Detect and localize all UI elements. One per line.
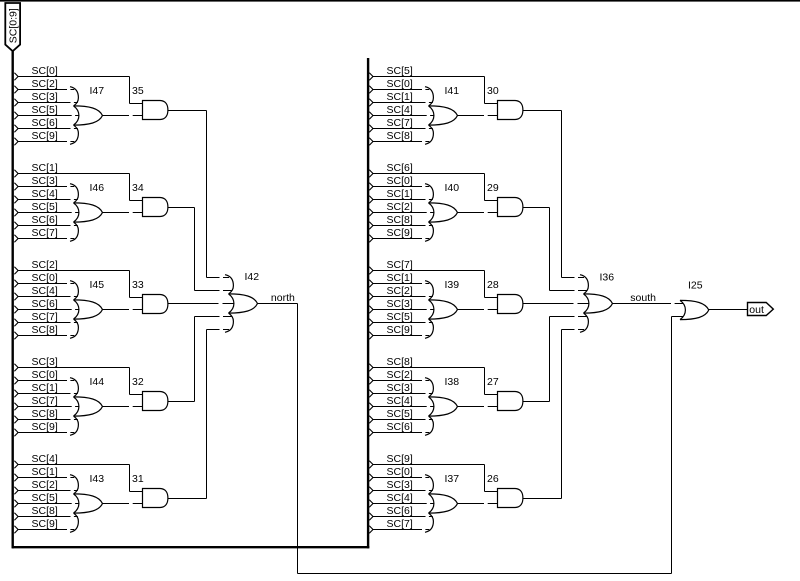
svg-text:28: 28 [487,279,499,291]
svg-text:SC[8]: SC[8] [387,356,413,368]
svg-text:SC[2]: SC[2] [387,369,413,381]
svg-text:SC[0]: SC[0] [387,175,413,187]
svg-text:I25: I25 [688,280,703,292]
svg-text:I46: I46 [90,182,105,194]
svg-text:SC[2]: SC[2] [32,479,58,491]
svg-text:south: south [630,292,656,304]
svg-text:SC[4]: SC[4] [387,104,413,116]
svg-text:SC[1]: SC[1] [32,162,58,174]
svg-text:SC[5]: SC[5] [387,408,413,420]
svg-text:SC[5]: SC[5] [387,65,413,77]
svg-text:SC[7]: SC[7] [387,518,413,530]
svg-text:SC[7]: SC[7] [32,227,58,239]
svg-text:30: 30 [487,85,499,97]
svg-text:SC[5]: SC[5] [387,311,413,323]
svg-text:SC[4]: SC[4] [32,188,58,200]
svg-text:26: 26 [487,473,499,485]
svg-text:SC[3]: SC[3] [387,298,413,310]
svg-text:SC[4]: SC[4] [32,453,58,465]
svg-text:SC[0]: SC[0] [387,78,413,90]
svg-text:SC[7]: SC[7] [387,117,413,129]
svg-text:SC[4]: SC[4] [387,492,413,504]
svg-text:I47: I47 [90,85,105,97]
svg-text:SC[1]: SC[1] [387,91,413,103]
svg-text:I39: I39 [445,279,460,291]
svg-text:32: 32 [132,376,144,388]
svg-text:SC[1]: SC[1] [32,466,58,478]
svg-text:SC[7]: SC[7] [32,311,58,323]
svg-text:I38: I38 [445,376,460,388]
svg-text:north: north [271,292,295,304]
svg-text:SC[3]: SC[3] [32,175,58,187]
svg-text:35: 35 [132,85,144,97]
svg-text:SC[0]: SC[0] [32,272,58,284]
svg-text:33: 33 [132,279,144,291]
svg-text:SC[9]: SC[9] [387,453,413,465]
svg-text:I45: I45 [90,279,105,291]
svg-text:SC[6]: SC[6] [387,421,413,433]
svg-text:SC[8]: SC[8] [32,408,58,420]
svg-text:34: 34 [132,182,144,194]
svg-text:SC[6]: SC[6] [32,298,58,310]
svg-text:SC[1]: SC[1] [387,272,413,284]
svg-text:SC[0]: SC[0] [32,369,58,381]
svg-text:SC[6]: SC[6] [32,117,58,129]
svg-text:SC[9]: SC[9] [387,324,413,336]
svg-text:SC[6]: SC[6] [387,162,413,174]
svg-text:SC[5]: SC[5] [32,104,58,116]
svg-text:SC[9]: SC[9] [387,227,413,239]
svg-text:SC[8]: SC[8] [32,505,58,517]
svg-text:SC[6]: SC[6] [387,505,413,517]
svg-text:SC[1]: SC[1] [387,188,413,200]
svg-text:SC[0]: SC[0] [387,466,413,478]
svg-text:SC[4]: SC[4] [387,395,413,407]
svg-text:SC[6]: SC[6] [32,214,58,226]
svg-text:I37: I37 [445,473,460,485]
svg-text:I36: I36 [600,272,615,284]
svg-text:SC[0]: SC[0] [32,65,58,77]
svg-text:SC[3]: SC[3] [387,382,413,394]
svg-text:SC[9]: SC[9] [32,130,58,142]
svg-text:SC[5]: SC[5] [32,492,58,504]
svg-text:SC[5]: SC[5] [32,201,58,213]
svg-text:SC[9]: SC[9] [32,518,58,530]
svg-text:SC[3]: SC[3] [387,479,413,491]
svg-text:SC[8]: SC[8] [387,130,413,142]
svg-text:SC[3]: SC[3] [32,356,58,368]
svg-text:SC[3]: SC[3] [32,91,58,103]
svg-text:SC[7]: SC[7] [32,395,58,407]
svg-text:SC[8]: SC[8] [32,324,58,336]
svg-text:SC[4]: SC[4] [32,285,58,297]
svg-text:SC[8]: SC[8] [387,214,413,226]
svg-text:SC[1]: SC[1] [32,382,58,394]
svg-text:I44: I44 [90,376,105,388]
svg-text:SC[2]: SC[2] [387,201,413,213]
svg-text:27: 27 [487,376,499,388]
svg-text:SC[7]: SC[7] [387,259,413,271]
svg-text:SC[2]: SC[2] [387,285,413,297]
svg-text:SC[2]: SC[2] [32,78,58,90]
svg-text:29: 29 [487,182,499,194]
svg-text:I42: I42 [245,271,260,283]
svg-text:I40: I40 [445,182,460,194]
svg-text:SC[0:9]: SC[0:9] [8,8,20,43]
svg-text:SC[9]: SC[9] [32,421,58,433]
svg-text:out: out [749,304,764,316]
svg-text:SC[2]: SC[2] [32,259,58,271]
svg-text:31: 31 [132,473,144,485]
svg-text:I41: I41 [445,85,460,97]
svg-text:I43: I43 [90,473,105,485]
